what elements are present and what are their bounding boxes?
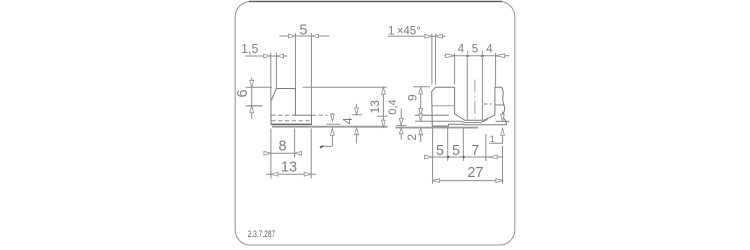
dimension 8	[264, 129, 302, 179]
frame rounded border	[235, 2, 515, 245]
dimension 1,5	[241, 42, 287, 101]
svg-text:1 ×45°: 1 ×45°	[388, 25, 421, 37]
svg-text:,: ,	[481, 44, 484, 56]
dimension 6 left	[235, 78, 272, 120]
svg-text:6: 6	[235, 89, 251, 97]
svg-text:7: 7	[471, 143, 479, 159]
left profile hidden layer line lower	[271, 120, 311, 122]
left profile outline	[271, 89, 312, 125]
svg-text:8: 8	[278, 139, 286, 155]
svg-text:27: 27	[467, 165, 483, 181]
dimension 13 tall	[303, 87, 388, 127]
svg-text:13: 13	[281, 160, 297, 176]
svg-text:5: 5	[436, 143, 444, 159]
surface line under left profile	[272, 126, 388, 128]
right profile inner bottom line with dish	[415, 120, 488, 123]
right profile center line	[474, 80, 476, 120]
svg-text:4: 4	[458, 44, 465, 56]
svg-text:5: 5	[472, 44, 478, 56]
dimension 0,4	[387, 99, 406, 139]
right profile outline	[432, 87, 507, 126]
left profile bottom thick edge	[271, 123, 312, 125]
dimension 1 middle	[320, 113, 340, 148]
svg-text:0,4: 0,4	[387, 99, 399, 114]
svg-text:2: 2	[405, 134, 419, 141]
svg-text:13: 13	[368, 100, 382, 114]
svg-text:4: 4	[341, 117, 355, 124]
right profile groove line in left wall	[432, 105, 454, 107]
document number text	[248, 229, 276, 239]
svg-text:,: ,	[466, 44, 469, 56]
left profile hidden layer line upper	[271, 114, 295, 116]
dimension 5,5,7 chain	[424, 128, 503, 184]
svg-text:5: 5	[452, 143, 460, 159]
dimension 4 middle	[312, 104, 362, 144]
dimension 1x45deg chamfer	[388, 25, 446, 84]
svg-text:4: 4	[486, 44, 493, 56]
dimension 13 bottom	[266, 129, 316, 179]
svg-text:9: 9	[405, 94, 419, 101]
frame top dark edge	[249, 0, 502, 2]
dimension 27	[433, 146, 503, 184]
right profile hidden dashes	[484, 103, 492, 105]
svg-text:2.3.7.287: 2.3.7.287	[248, 229, 276, 239]
dimension 9	[405, 87, 430, 116]
dimension 5 top	[279, 22, 329, 115]
svg-text:1: 1	[490, 134, 495, 145]
dimension 4,5,4 chain	[444, 44, 510, 121]
surface line under right profile	[395, 127, 478, 129]
svg-text:5: 5	[299, 22, 307, 38]
right profile right-wall step line	[495, 104, 504, 106]
right profile inner line upper	[415, 114, 449, 116]
dimension 2	[405, 114, 423, 142]
svg-text:1,5: 1,5	[241, 42, 258, 56]
dimension 1 right	[489, 112, 509, 146]
